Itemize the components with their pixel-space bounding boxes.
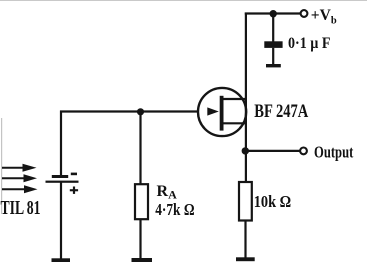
ground (capacitor)	[266, 64, 281, 67]
ground (photocell)	[52, 258, 71, 262]
terminal Output (open circle)	[300, 148, 307, 155]
transistor Q1 drain lead	[222, 98, 246, 100]
wire: gate horizontal (photocell/RA node to JFET gate)	[60, 110, 199, 112]
svg-text:4·7k Ω: 4·7k Ω	[155, 200, 194, 219]
node: supply junction dot	[270, 10, 277, 17]
wire: output horizontal	[245, 150, 300, 152]
ground (10k)	[236, 257, 255, 261]
resistor RA body	[135, 184, 148, 219]
node: gate junction dot	[137, 108, 144, 115]
wire: capacitor top lead	[272, 14, 274, 43]
svg-text:Output: Output	[314, 142, 354, 161]
transistor Q1 BF 247A (JFET) body circle	[198, 88, 246, 136]
wire: capacitor bottom lead	[272, 48, 274, 65]
scan border top edge	[0, 0, 367, 1]
light arrow 1	[2, 164, 37, 172]
polarity label plus	[70, 187, 78, 194]
transistor Q1 channel bar	[220, 96, 224, 131]
resistor 10k body	[239, 182, 252, 221]
wire: top supply rail	[245, 12, 301, 14]
svg-text:0·1 µ F: 0·1 µ F	[288, 35, 331, 52]
scan border left edge	[1, 118, 2, 214]
wire: 10k bottom lead	[244, 221, 246, 259]
wire: photocell to ground	[60, 182, 62, 259]
light arrow 2	[2, 174, 37, 182]
photocell TIL 81 : bottom plate (positive, long)	[46, 181, 79, 183]
light arrow 3	[2, 185, 38, 193]
svg-text:10k Ω: 10k Ω	[254, 192, 292, 211]
ground (RA)	[132, 258, 153, 262]
capacitor C1 body (solid block)	[264, 41, 282, 48]
terminal +Vb (open circle)	[301, 10, 308, 17]
wire: right vertical (drain to +Vb rail and source to output node)	[245, 13, 247, 183]
transistor Q1 source lead	[222, 122, 246, 124]
wire: RA bottom lead	[139, 219, 141, 259]
node: output junction dot	[242, 147, 249, 154]
polarity label minus	[71, 173, 77, 176]
svg-text:TIL 81: TIL 81	[1, 198, 41, 219]
wire: RA top lead	[139, 111, 141, 184]
photocell TIL 81 : top plate (negative, short thick)	[52, 175, 68, 178]
wire: left vertical down to photocell	[60, 111, 62, 177]
svg-text:BF 247A: BF 247A	[254, 102, 308, 122]
transistor Q1 gate arrowhead	[207, 107, 219, 115]
